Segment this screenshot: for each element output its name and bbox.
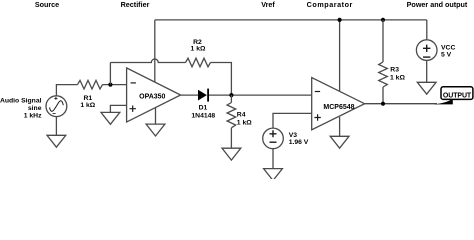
voltage source VCC xyxy=(416,40,437,61)
output flag tail xyxy=(434,99,453,105)
svg-text:Vref: Vref xyxy=(261,0,275,9)
voltage source V3 xyxy=(263,128,284,149)
wire comparator V+ supply pin xyxy=(339,20,341,92)
wire op-amp V- pin to ground xyxy=(155,108,157,125)
output flag OUTPUT xyxy=(441,87,473,100)
wire VCC bottom lead xyxy=(426,60,428,82)
ground at op-amp noninverting input xyxy=(101,112,120,124)
svg-text:Power and output: Power and output xyxy=(407,0,468,9)
svg-text:OPA350: OPA350 xyxy=(139,93,165,100)
wire source top lead xyxy=(56,85,77,96)
ground below source xyxy=(47,135,66,147)
label R4 1 kOhm xyxy=(237,112,252,127)
node junction rail to comparator supply xyxy=(338,18,342,22)
node junction R3 to output xyxy=(381,102,385,106)
node junction rail to R3 xyxy=(381,18,385,22)
svg-text:1 kΩ: 1 kΩ xyxy=(390,75,405,82)
svg-text:Audio Signal: Audio Signal xyxy=(0,98,42,105)
resistor R4 xyxy=(227,95,236,148)
wire R1 to op-amp inverting input xyxy=(103,84,127,86)
ground below VCC xyxy=(417,82,436,94)
wire VCC top rail xyxy=(155,19,427,21)
wire R2 to diode node xyxy=(211,63,232,96)
wire op-amp output to diode xyxy=(181,94,198,96)
svg-text:Source: Source xyxy=(35,0,59,9)
svg-text:R4: R4 xyxy=(237,112,246,119)
comparator U2 MCP6548 xyxy=(312,78,365,130)
label R1 1 kOhm xyxy=(80,95,95,109)
node junction feedback tap xyxy=(108,83,112,87)
svg-text:D1: D1 xyxy=(199,105,208,112)
svg-text:Comparator: Comparator xyxy=(307,0,353,9)
wire comparator output xyxy=(365,103,437,105)
wire VCC source drop xyxy=(426,20,428,40)
svg-text:1 kΩ: 1 kΩ xyxy=(80,102,95,109)
ground below comparator xyxy=(330,136,349,148)
wire V3 bottom lead xyxy=(272,149,274,169)
resistor R2 xyxy=(186,58,211,67)
wire diode to comparator inverting input xyxy=(209,94,312,96)
diode D1 xyxy=(198,89,208,102)
svg-text:1 kΩ: 1 kΩ xyxy=(237,120,252,127)
wire comparator V- pin to ground xyxy=(339,117,341,136)
svg-text:1N4148: 1N4148 xyxy=(191,113,215,120)
ground below op-amp xyxy=(146,124,165,136)
resistor R1 xyxy=(78,80,103,89)
svg-text:1 kΩ: 1 kΩ xyxy=(191,45,206,52)
wire op-amp V+ supply pin xyxy=(154,20,156,82)
wire feedback tap up xyxy=(109,63,111,85)
ground below V3 xyxy=(264,169,283,181)
voltage source V1 Audio Signal circle xyxy=(46,96,67,117)
svg-text:R3: R3 xyxy=(390,67,399,74)
ground below R4 xyxy=(222,148,241,160)
svg-text:Rectifier: Rectifier xyxy=(121,0,150,9)
svg-text:sine: sine xyxy=(28,105,42,112)
svg-text:OUTPUT: OUTPUT xyxy=(443,93,472,100)
wire feedback horizontal with hop over supply xyxy=(110,59,185,63)
svg-text:5 V: 5 V xyxy=(441,51,452,58)
wire V3 to comparator noninverting input xyxy=(273,113,312,128)
svg-text:1 kHz: 1 kHz xyxy=(24,113,42,120)
op-amp U1 OPA350 xyxy=(127,68,181,122)
label R3 1 kOhm xyxy=(390,67,405,82)
label Audio Signal sine 1 kHz xyxy=(0,98,42,120)
wire source bottom lead xyxy=(55,117,57,136)
label V3 1.96 V xyxy=(289,132,309,146)
resistor R3 xyxy=(379,20,388,104)
svg-text:MCP6548: MCP6548 xyxy=(323,104,354,111)
node junction diode R4 R2 comparator xyxy=(229,93,233,97)
label R2 1 kOhm xyxy=(191,39,206,53)
label VCC 5 V xyxy=(441,45,455,59)
wire op-amp noninverting input to ground xyxy=(110,105,126,112)
label D1 1N4148 xyxy=(191,105,215,120)
svg-text:1.96 V: 1.96 V xyxy=(289,139,309,146)
